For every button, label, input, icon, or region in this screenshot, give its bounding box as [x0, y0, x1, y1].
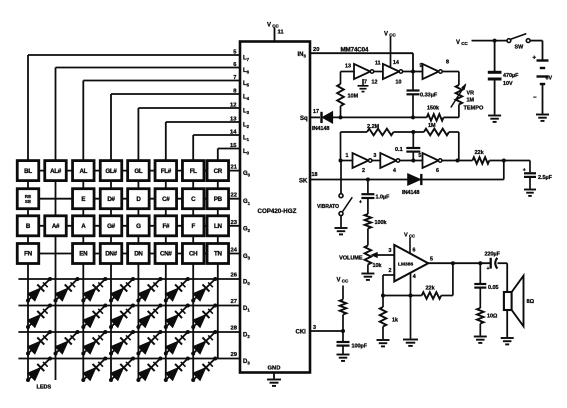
svg-text:2: 2 — [389, 268, 392, 274]
svg-text:L4: L4 — [243, 95, 250, 102]
svg-text:CH: CH — [189, 251, 198, 258]
svg-text:15: 15 — [230, 143, 237, 149]
svg-text:22k: 22k — [426, 286, 436, 292]
svg-text:2.2M: 2.2M — [367, 124, 380, 130]
svg-text:L0: L0 — [243, 149, 250, 156]
svg-text:V: V — [384, 32, 388, 38]
svg-text:1: 1 — [346, 153, 349, 159]
svg-text:BL: BL — [24, 168, 32, 175]
svg-text:2.5µF: 2.5µF — [538, 175, 553, 181]
svg-text:10M: 10M — [348, 94, 359, 100]
svg-text:D1: D1 — [243, 306, 250, 313]
svg-text:C#: C# — [162, 196, 170, 203]
svg-text:AL: AL — [79, 168, 87, 175]
svg-text:V: V — [456, 40, 460, 46]
svg-text:CKI: CKI — [296, 329, 307, 335]
svg-text:L3: L3 — [243, 109, 250, 116]
svg-text:DN#: DN# — [105, 251, 117, 258]
svg-text:TEMPO: TEMPO — [464, 105, 485, 111]
svg-text:MM74C04: MM74C04 — [341, 47, 370, 54]
svg-text:L1: L1 — [243, 136, 250, 143]
svg-text:11: 11 — [278, 30, 285, 36]
svg-text:0.33µF: 0.33µF — [420, 93, 438, 99]
svg-text:GL#: GL# — [105, 168, 117, 175]
svg-text:13: 13 — [230, 117, 237, 123]
svg-text:22k: 22k — [475, 150, 485, 156]
svg-text:SW: SW — [515, 45, 525, 51]
svg-text:9: 9 — [420, 63, 423, 69]
svg-text:12: 12 — [230, 103, 236, 109]
svg-text:L5: L5 — [243, 81, 250, 88]
svg-text:6V: 6V — [546, 76, 553, 82]
svg-text:GND: GND — [268, 366, 281, 372]
svg-text:0.1: 0.1 — [395, 147, 403, 153]
svg-text:10: 10 — [396, 80, 402, 86]
svg-text:FL#: FL# — [161, 168, 172, 175]
svg-text:8Ω: 8Ω — [527, 299, 535, 305]
svg-text:CC: CC — [461, 41, 468, 46]
svg-text:6: 6 — [413, 248, 416, 254]
svg-text:PB: PB — [214, 196, 223, 203]
svg-text:220µF: 220µF — [485, 251, 501, 257]
svg-text:23: 23 — [231, 220, 238, 226]
svg-text:1.0µF: 1.0µF — [376, 195, 391, 201]
svg-text:10V: 10V — [503, 81, 513, 87]
svg-text:G: G — [136, 223, 141, 230]
svg-text:20: 20 — [313, 47, 319, 53]
svg-text:VIBRATO: VIBRATO — [317, 204, 339, 210]
svg-text:100k: 100k — [375, 220, 387, 226]
svg-text:VR: VR — [467, 91, 475, 97]
svg-text:29: 29 — [231, 352, 238, 358]
svg-text:13: 13 — [345, 64, 351, 70]
svg-text:10k: 10k — [373, 263, 382, 269]
svg-text:+: + — [359, 200, 362, 206]
svg-text:A#: A# — [52, 223, 60, 230]
svg-text:28: 28 — [231, 326, 238, 332]
svg-text:+: + — [486, 266, 489, 272]
svg-text:14: 14 — [393, 60, 399, 66]
svg-text:EN: EN — [79, 251, 88, 258]
svg-text:FL: FL — [190, 168, 197, 175]
svg-text:GL: GL — [134, 168, 143, 175]
svg-text:+: + — [523, 167, 526, 173]
svg-text:6: 6 — [436, 168, 439, 174]
svg-text:2: 2 — [362, 168, 365, 174]
svg-text:1M: 1M — [467, 98, 475, 104]
svg-text:D#: D# — [107, 196, 115, 203]
svg-text:D3: D3 — [243, 359, 250, 366]
svg-text:0.05: 0.05 — [488, 285, 499, 291]
svg-text:14: 14 — [230, 130, 237, 136]
svg-text:26: 26 — [231, 273, 238, 279]
svg-text:L7: L7 — [243, 56, 250, 63]
svg-text:150k: 150k — [427, 105, 439, 111]
svg-text:CR: CR — [214, 168, 223, 175]
svg-text:4: 4 — [413, 274, 416, 280]
svg-text:FN: FN — [24, 251, 32, 258]
svg-text:G#: G# — [107, 223, 116, 230]
svg-text:12: 12 — [372, 80, 378, 86]
svg-text:LN: LN — [214, 223, 222, 230]
svg-text:−: − — [533, 95, 537, 101]
svg-text:SK: SK — [299, 178, 308, 184]
svg-text:Sq: Sq — [300, 116, 308, 122]
svg-text:100pF: 100pF — [352, 344, 368, 350]
svg-text:10Ω: 10Ω — [487, 314, 498, 320]
svg-text:IN3: IN3 — [298, 52, 307, 59]
svg-text:D2: D2 — [243, 333, 250, 340]
svg-text:E: E — [81, 196, 85, 203]
svg-text:V: V — [267, 23, 271, 29]
svg-text:IN4148: IN4148 — [402, 190, 419, 196]
svg-text:27: 27 — [231, 299, 237, 305]
svg-text:G1: G1 — [243, 199, 251, 206]
svg-text:1k: 1k — [392, 318, 398, 324]
svg-text:LEDS: LEDS — [37, 385, 52, 391]
svg-text:L6: L6 — [243, 68, 250, 75]
svg-text:G3: G3 — [243, 254, 251, 261]
svg-text:+: + — [532, 56, 536, 62]
svg-text:4: 4 — [393, 168, 396, 174]
svg-text:7: 7 — [364, 80, 367, 86]
svg-text:F#: F# — [162, 223, 169, 230]
svg-text:CC: CC — [342, 279, 349, 284]
svg-text:CN#: CN# — [160, 251, 172, 258]
svg-text:DN: DN — [134, 251, 143, 258]
svg-text:V: V — [404, 233, 408, 239]
svg-text:18: 18 — [312, 172, 318, 178]
svg-text:11: 11 — [375, 61, 381, 67]
svg-text:G2: G2 — [243, 226, 251, 233]
svg-text:LM386: LM386 — [398, 262, 414, 268]
svg-text:5: 5 — [430, 257, 433, 263]
svg-text:L2: L2 — [243, 123, 250, 130]
svg-text:SE: SE — [25, 199, 31, 204]
svg-text:V: V — [337, 278, 341, 284]
svg-text:17: 17 — [313, 109, 319, 115]
svg-text:22: 22 — [231, 193, 237, 199]
svg-text:CC: CC — [272, 24, 279, 29]
svg-text:COP420-HGZ: COP420-HGZ — [258, 208, 297, 215]
svg-text:VOLUME: VOLUME — [339, 256, 363, 262]
svg-text:3: 3 — [389, 248, 392, 254]
svg-text:24: 24 — [231, 248, 238, 254]
svg-text:7: 7 — [233, 75, 236, 81]
svg-text:21: 21 — [231, 165, 238, 171]
svg-text:TN: TN — [214, 251, 222, 258]
svg-text:IN4148: IN4148 — [312, 126, 329, 132]
svg-text:AL#: AL# — [50, 168, 62, 175]
svg-text:1M: 1M — [428, 123, 436, 129]
svg-text:G0: G0 — [243, 171, 251, 178]
svg-text:F: F — [191, 223, 195, 230]
svg-text:D0: D0 — [243, 280, 250, 287]
svg-text:470µF: 470µF — [503, 73, 519, 79]
svg-text:8: 8 — [446, 60, 449, 66]
svg-text:5: 5 — [418, 153, 421, 159]
svg-text:3: 3 — [373, 153, 376, 159]
